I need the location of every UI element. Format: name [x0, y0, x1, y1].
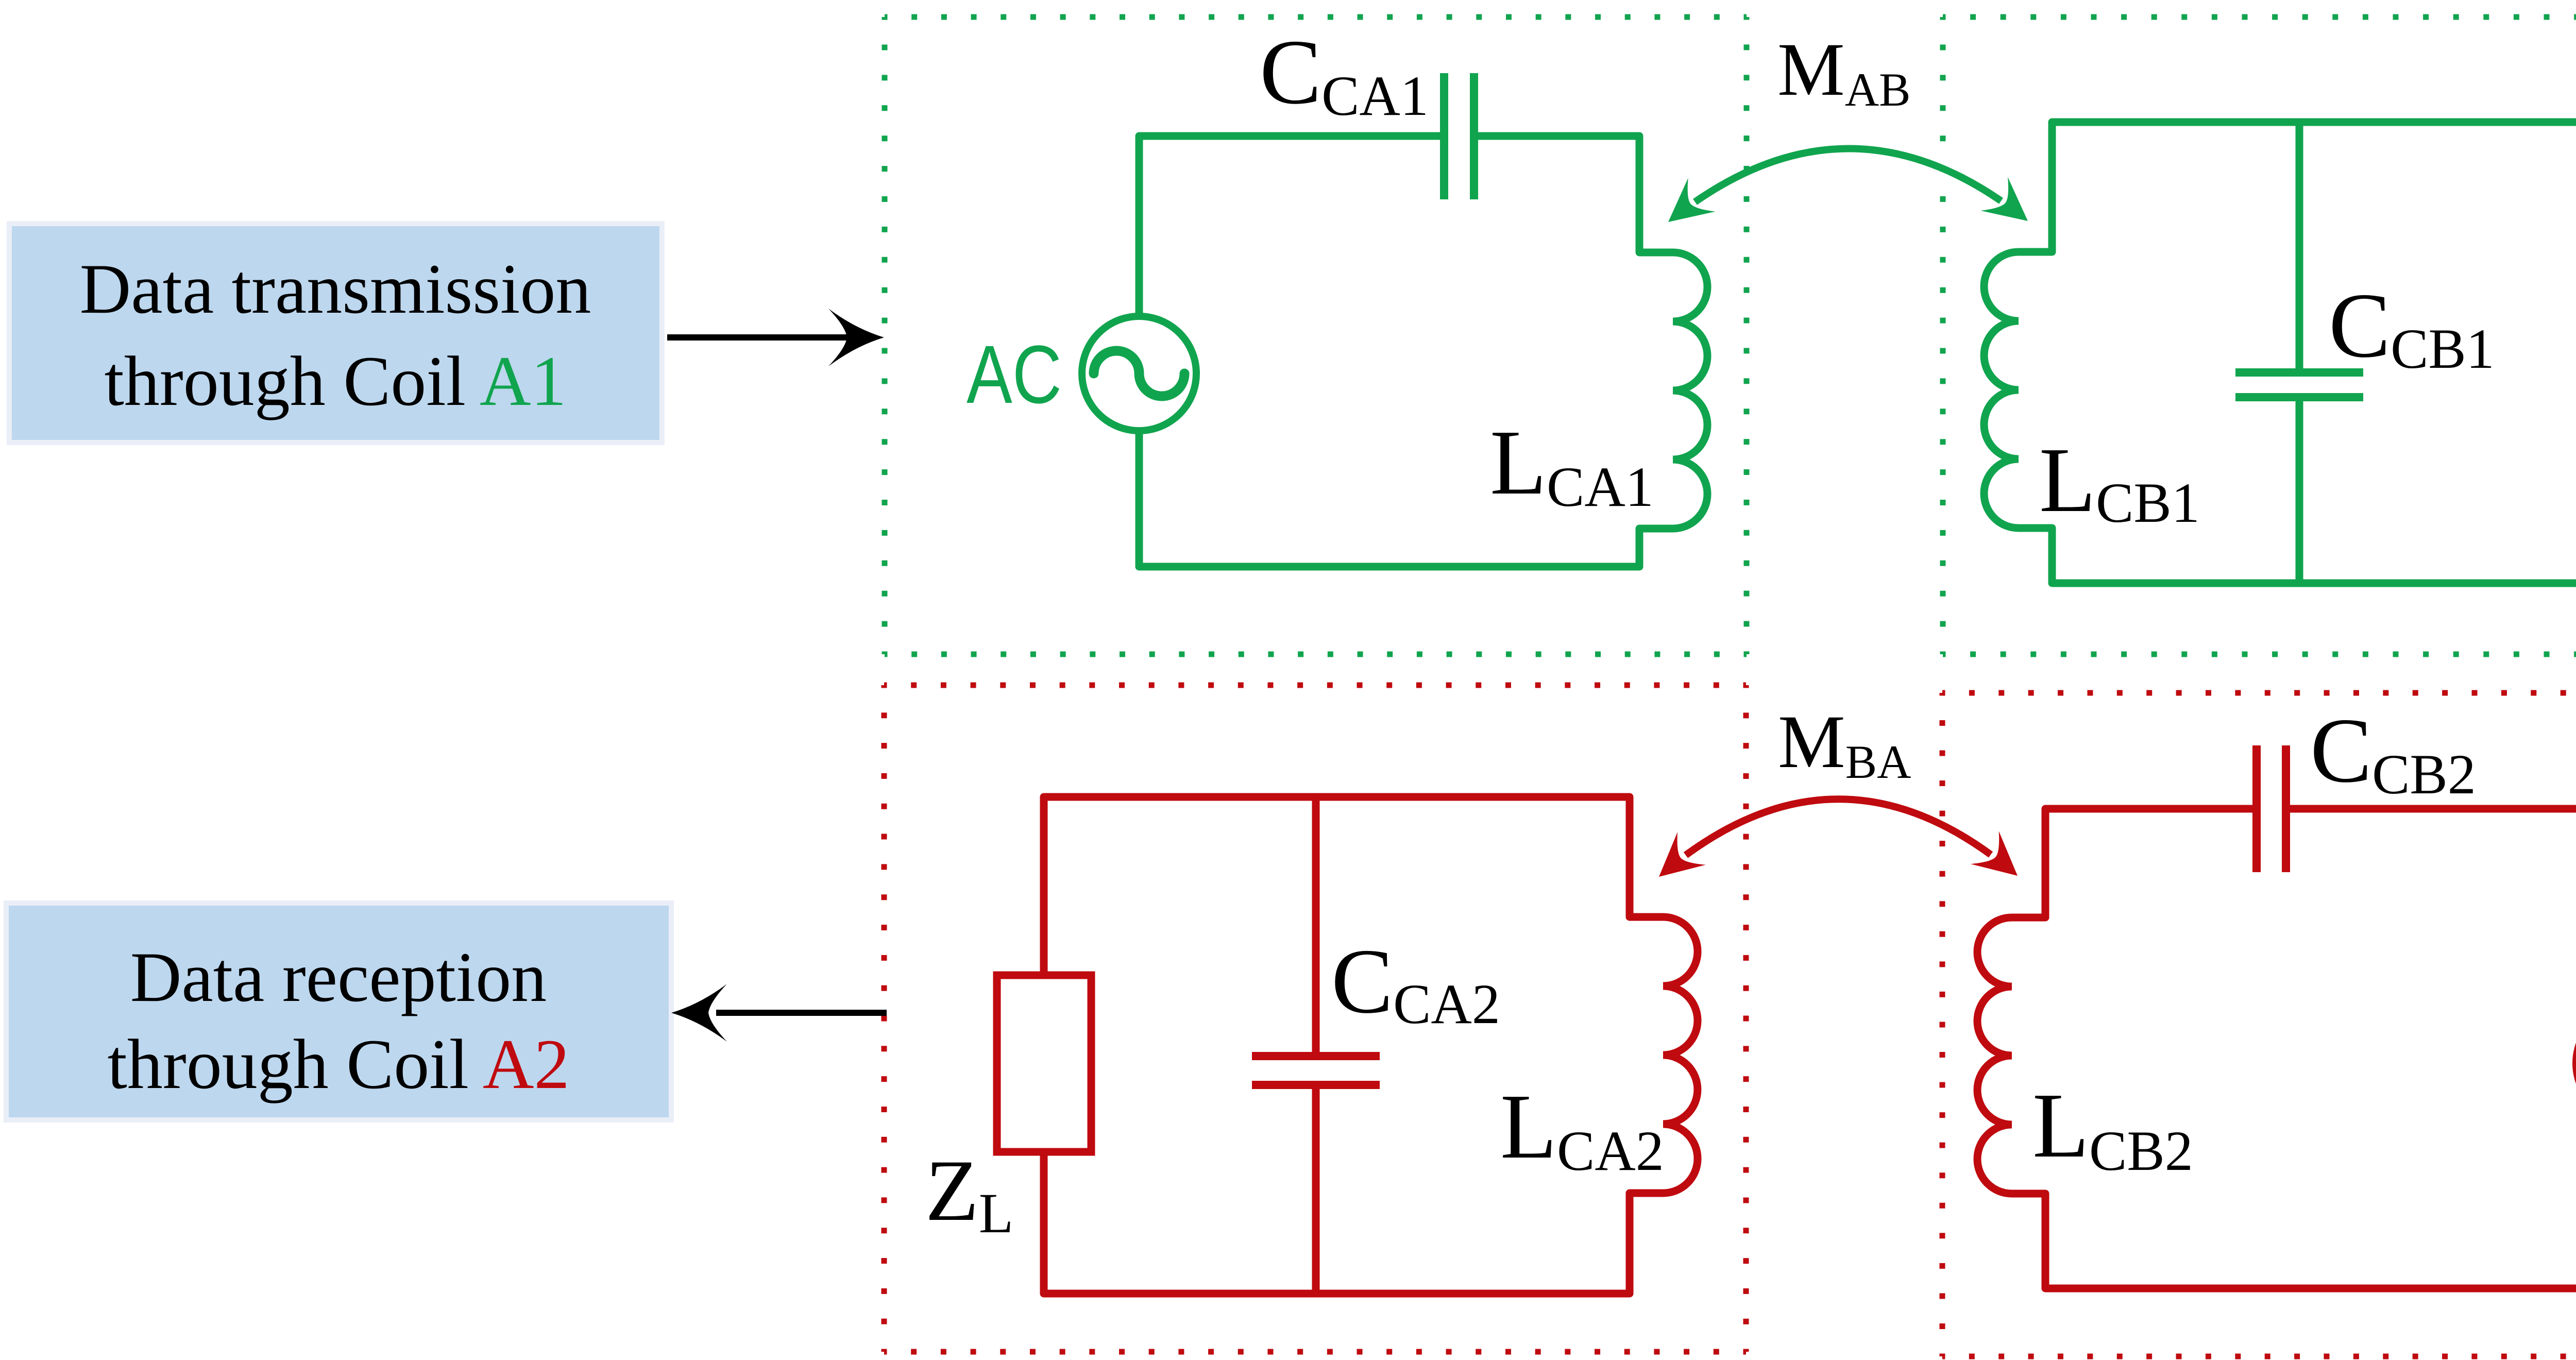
- svg-text:LCA1: LCA1: [1490, 411, 1654, 518]
- svg-text:CCA1: CCA1: [1260, 21, 1429, 127]
- svg-text:Data transmission: Data transmission: [80, 249, 591, 328]
- svg-text:LCB2: LCB2: [2032, 1074, 2193, 1182]
- svg-text:AC: AC: [967, 328, 1062, 420]
- svg-text:Data reception: Data reception: [130, 938, 547, 1016]
- svg-text:CCB2: CCB2: [2310, 699, 2476, 806]
- svg-text:LCB1: LCB1: [2039, 429, 2200, 534]
- svg-text:through Coil A1: through Coil A1: [104, 342, 566, 420]
- svg-text:LCA2: LCA2: [1500, 1075, 1664, 1182]
- svg-text:MBA: MBA: [1778, 700, 1911, 788]
- svg-text:MAB: MAB: [1777, 27, 1911, 116]
- svg-text:ZL: ZL: [925, 1142, 1013, 1245]
- svg-text:through Coil A2: through Coil A2: [107, 1025, 569, 1103]
- svg-text:CCB1: CCB1: [2329, 274, 2495, 380]
- svg-text:CCA2: CCA2: [1331, 930, 1500, 1035]
